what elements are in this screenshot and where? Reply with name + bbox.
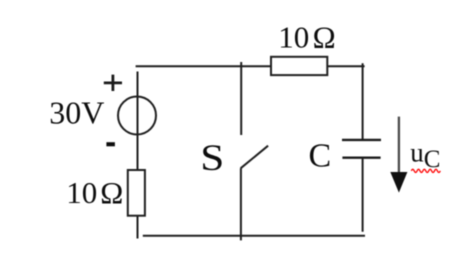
svg-text:10Ω: 10Ω (66, 175, 123, 210)
polarity plus sign (104, 75, 122, 91)
wire: top rail right segment (R1 right to capacitor corner) (327, 65, 365, 67)
svg-text:30V: 30V (49, 95, 104, 131)
wire: left branch vertical (through source V1 and R2) (137, 72, 139, 239)
wire: switch branch lower (240, 168, 242, 240)
svg-text:C: C (309, 138, 332, 175)
arrowhead for uC (390, 172, 407, 193)
switch S blade (241, 146, 269, 169)
wire: capacitor branch upper (362, 63, 364, 140)
spellcheck squiggle under uC (411, 169, 440, 172)
wire: capacitor branch lower (362, 158, 364, 232)
label S (200, 137, 224, 178)
resistor R1 10ohm top branch (271, 57, 327, 75)
voltage source V1 30V (118, 97, 156, 135)
capacitor C bottom plate (342, 156, 380, 158)
resistor R2 10ohm left branch (128, 170, 145, 216)
svg-text:uC: uC (410, 138, 440, 173)
wire: switch branch upper (240, 62, 242, 135)
capacitor C top plate (342, 139, 381, 141)
polarity minus sign (106, 142, 115, 146)
svg-text:S: S (200, 137, 224, 178)
arrow shaft for uC reference direction (398, 117, 400, 176)
wire: top rail left segment (source top to R1 left) (136, 65, 272, 67)
wire: bottom rail (143, 235, 365, 237)
svg-text:10Ω: 10Ω (278, 19, 335, 54)
